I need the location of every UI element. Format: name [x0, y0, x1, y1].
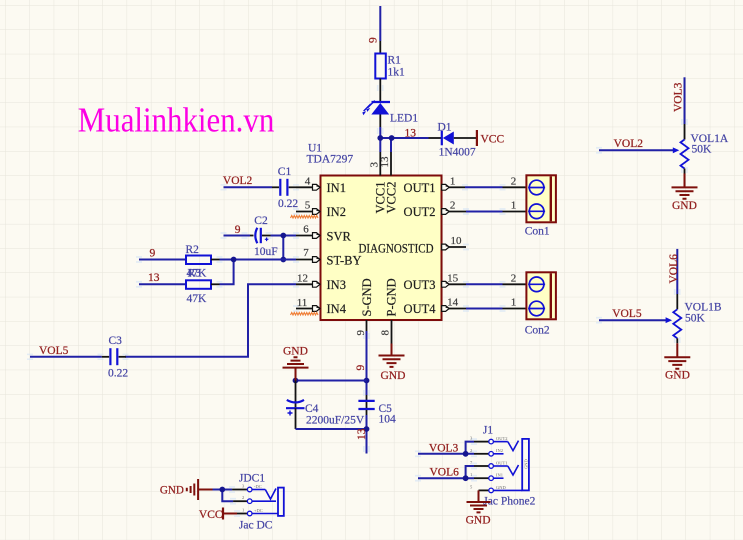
VOL1A labels [691, 133, 729, 156]
svg-text:GND: GND [283, 346, 308, 358]
svg-text:VOL3: VOL3 [429, 443, 459, 455]
svg-text:Con2: Con2 [525, 325, 550, 337]
U1 pin 5 [296, 200, 320, 215]
net label 9 (C2 row) [235, 224, 241, 236]
svg-text:Jac Phone2: Jac Phone2 [483, 496, 535, 508]
svg-text:47K: 47K [187, 293, 208, 305]
svg-text:ST-BY: ST-BY [327, 253, 362, 267]
Con1 label [525, 226, 550, 238]
svg-text:VCC: VCC [481, 134, 505, 146]
U1 designator [307, 143, 354, 166]
svg-text:S-GND: S-GND [360, 278, 374, 316]
svg-text:0.22: 0.22 [278, 198, 298, 210]
U1 pin 10 [442, 235, 466, 250]
U1 pin 4 [296, 176, 320, 191]
svg-text:1: 1 [242, 508, 244, 513]
VOL1B labels [685, 302, 722, 325]
svg-text:1: 1 [470, 472, 472, 477]
svg-text:GND: GND [496, 485, 506, 490]
svg-text:TDA7297: TDA7297 [307, 154, 354, 166]
wire VOL6 right vertical [676, 249, 678, 294]
power port GND (rotated, JDC1) [160, 479, 213, 500]
wire LED to VCC1/VCC2 [380, 127, 428, 152]
svg-text:OUT4: OUT4 [404, 302, 437, 316]
power port GND (inverted, above C4) [283, 346, 309, 381]
U1 pin 6 [296, 224, 320, 239]
power port VCC (JDC1) [199, 508, 237, 522]
JDC1 labels [239, 473, 273, 532]
U1 pin 12 [296, 273, 320, 287]
svg-text:OUT1: OUT1 [496, 460, 508, 465]
svg-text:R3: R3 [188, 268, 202, 280]
svg-text:IN3: IN3 [327, 278, 346, 292]
wire pin12 to C3 net [125, 284, 296, 357]
svg-text:D1: D1 [438, 122, 452, 134]
svg-text:7: 7 [303, 247, 309, 259]
junction dot VOL3 [463, 451, 469, 457]
svg-text:8: 8 [380, 330, 392, 336]
junction dot C4 top [293, 378, 299, 384]
svg-text:+DC: +DC [254, 508, 263, 513]
svg-text:OUT3: OUT3 [404, 278, 436, 292]
net label VOL6 (J1) [430, 467, 460, 479]
net label VOL2 (right) [614, 138, 644, 150]
net label 13 (R3 row) [148, 272, 160, 284]
wire 13 to R3 [139, 283, 186, 285]
svg-text:R1: R1 [388, 55, 402, 67]
svg-text:VOL2: VOL2 [223, 175, 253, 187]
U1 pin 3 [368, 152, 380, 176]
C5 labels [379, 403, 397, 426]
U1 pin 11 [296, 297, 320, 311]
svg-text:VOL3: VOL3 [672, 82, 684, 112]
svg-text:VOL5: VOL5 [612, 308, 642, 320]
svg-text:GND: GND [160, 485, 184, 497]
svg-text:IN1: IN1 [327, 181, 346, 195]
svg-text:2: 2 [511, 176, 517, 188]
svg-text:5: 5 [305, 200, 311, 212]
power port GND (J1) [466, 490, 491, 526]
svg-text:6: 6 [303, 224, 309, 236]
svg-text:2200uF/25V: 2200uF/25V [306, 415, 365, 427]
svg-text:1N4007: 1N4007 [439, 147, 476, 159]
svg-text:C2: C2 [254, 215, 268, 227]
resistor R3 [186, 280, 220, 289]
R3 value [187, 293, 208, 305]
LED LED1 [362, 101, 390, 127]
svg-text:9: 9 [367, 37, 379, 43]
svg-text:12: 12 [297, 273, 308, 285]
net label VOL3 (right) [672, 82, 684, 112]
wire VOL5 to VOL1B wiper [599, 317, 672, 323]
svg-text:1: 1 [450, 176, 456, 188]
net label VOL2 (left) [223, 175, 253, 187]
resistor R1 [375, 41, 386, 102]
svg-text:GND: GND [466, 515, 491, 527]
svg-text:OUT1: OUT1 [404, 181, 436, 195]
net label 9 (S-GND) [355, 365, 367, 371]
junction dots 13-net [377, 135, 394, 141]
Con2 label [525, 325, 550, 337]
wire C2 to pin6 [271, 235, 297, 237]
svg-text:VOL2: VOL2 [614, 138, 644, 150]
svg-text:2: 2 [470, 448, 472, 453]
svg-text:50K: 50K [692, 144, 713, 156]
svg-text:VCC2: VCC2 [384, 182, 398, 214]
C1 labels [278, 166, 299, 210]
U1 pin 8 [380, 320, 392, 344]
svg-text:1k1: 1k1 [388, 67, 406, 79]
svg-text:Mualinhkien.vn: Mualinhkien.vn [78, 100, 274, 139]
wire R2 to pin7 [220, 259, 297, 261]
net label 13 (top) [405, 128, 417, 140]
svg-text:-DC: -DC [254, 484, 262, 489]
junction dot ST-BY [280, 257, 286, 263]
svg-text:R2: R2 [186, 244, 200, 256]
svg-text:4: 4 [305, 176, 311, 188]
wire pin15 to Con2 [466, 272, 526, 284]
svg-text:50K: 50K [685, 313, 706, 325]
net label VOL6 (right) [668, 254, 680, 284]
svg-text:VOL6: VOL6 [668, 254, 680, 284]
wire SVR to ST-BY vertical [282, 236, 284, 260]
net label VOL3 (J1) [429, 443, 459, 455]
svg-text:9: 9 [355, 365, 367, 371]
wire pin1 to Con1 [465, 176, 526, 188]
wire S-GND down [366, 331, 368, 395]
svg-text:C3: C3 [109, 335, 123, 347]
junction dot R2/R3 [231, 257, 237, 263]
svg-text:LED1: LED1 [390, 113, 418, 125]
svg-text:P-GND: P-GND [384, 278, 398, 316]
svg-text:DIAGNOSTICD: DIAGNOSTICD [359, 241, 434, 255]
svg-text:IN4: IN4 [327, 302, 347, 316]
svg-text:C1: C1 [278, 166, 292, 178]
LED1 label [390, 113, 418, 125]
svg-text:GND: GND [672, 200, 697, 212]
svg-text:13: 13 [148, 272, 160, 284]
R2 labels [186, 244, 208, 280]
U1 pin 1 [442, 176, 465, 191]
resistor R2 [186, 256, 220, 265]
net label 9 (top) [367, 37, 379, 43]
net label VOL5 (left) [39, 345, 69, 357]
svg-text:2: 2 [450, 200, 456, 212]
U1 pin 9 [355, 320, 367, 336]
svg-text:104: 104 [379, 414, 397, 426]
svg-text:9: 9 [150, 248, 156, 260]
wire R3 up to ST-BY [220, 260, 234, 285]
junction dot JDC1 [219, 487, 225, 493]
junction dot VOL6 [463, 475, 469, 481]
svg-text:9: 9 [355, 330, 367, 336]
vertical-wire hotspots: pairs left/right [363, 85, 688, 452]
svg-text:IN2: IN2 [496, 448, 503, 453]
no-ERC marker pin11 [291, 313, 319, 316]
svg-text:C4: C4 [305, 403, 319, 415]
junction dot S-GND [364, 378, 370, 384]
capacitor C3 [102, 348, 126, 365]
U1 pin 14 [442, 297, 466, 312]
wire VOL3 to J1 [418, 442, 474, 454]
svg-text:GND: GND [381, 370, 406, 382]
C2 labels [254, 215, 278, 258]
wire C4 bottom to 13 [296, 415, 367, 454]
wire GND to JDC1 [213, 490, 234, 502]
power port GND (VOL1B) [664, 343, 690, 381]
wire VOL2 to C1 [224, 186, 273, 188]
wire cross to C4 [296, 380, 367, 382]
svg-text:13: 13 [379, 156, 391, 168]
wire pin14 to Con2 [466, 297, 526, 309]
op-amp U1 TDA7297 body [321, 176, 442, 321]
potentiometer VOL1A [681, 124, 689, 174]
svg-text:OUT2: OUT2 [496, 436, 508, 441]
capacitor C1 [272, 179, 296, 196]
connector Con1 [526, 175, 556, 222]
wire 9 to R2 [139, 259, 186, 261]
wire pin2 to Con1 [466, 200, 526, 212]
capacitor C4 electrolytic [286, 381, 305, 430]
wire VOL3 right vertical [684, 77, 686, 124]
wire VCC rail top [379, 6, 381, 41]
net label 9 (R2 row) [150, 248, 156, 260]
U1 pin 15 [442, 272, 466, 287]
svg-text:OUT2: OUT2 [404, 205, 436, 219]
svg-text:9: 9 [235, 224, 241, 236]
net label VOL5 (right) [612, 308, 642, 320]
svg-text:J1: J1 [483, 425, 493, 437]
svg-text:Con1: Con1 [525, 226, 550, 238]
svg-text:13: 13 [356, 428, 368, 440]
R1 labels [388, 55, 406, 79]
svg-text:GND: GND [524, 459, 529, 469]
connector JDC1 Jac DC [232, 484, 284, 516]
C4 labels [305, 403, 365, 427]
diode D1 1N4007 [429, 131, 477, 146]
svg-text:10uF: 10uF [254, 246, 278, 258]
connector J1 Jac Phone2 [470, 436, 529, 493]
connector Con2 [526, 272, 556, 319]
power port GND (P-GND) [379, 344, 406, 383]
svg-text:10: 10 [451, 235, 463, 247]
svg-text:15: 15 [447, 272, 459, 284]
svg-text:SVR: SVR [327, 229, 352, 243]
U1 pin 7 [296, 247, 320, 262]
U1 pin names [327, 181, 437, 316]
junction dot 13 [364, 426, 370, 432]
svg-text:Jac DC: Jac DC [239, 520, 273, 532]
svg-text:11: 11 [297, 297, 308, 309]
watermark Mualinhkien.vn [78, 100, 274, 139]
svg-text:1: 1 [511, 297, 517, 309]
J1 labels [483, 425, 536, 508]
svg-text:GND: GND [665, 370, 690, 382]
C3 labels [108, 335, 128, 380]
svg-text:IN2: IN2 [327, 205, 346, 219]
svg-text:JDC1: JDC1 [239, 473, 265, 485]
capacitor C5 [358, 395, 374, 415]
U1 pin 2 [442, 200, 466, 215]
capacitor C2 polarized [250, 228, 271, 243]
svg-text:13: 13 [405, 128, 417, 140]
wire VOL2 to VOL1A wiper [599, 147, 679, 153]
power port VCC (top) [477, 130, 505, 146]
D1 labels [438, 122, 476, 159]
svg-text:VOL6: VOL6 [430, 467, 460, 479]
svg-text:2: 2 [242, 495, 244, 500]
net label 13 (bottom) [356, 428, 368, 440]
wire VOL6 to J1 [418, 466, 474, 478]
hotspot grid marks [27, 85, 688, 517]
svg-text:VOL5: VOL5 [39, 345, 69, 357]
power port GND (VOL1A) [672, 174, 698, 213]
junction dot SVR [280, 233, 286, 239]
svg-text:IN1: IN1 [496, 473, 503, 478]
no-ERC marker pin5 [291, 216, 319, 219]
potentiometer VOL1B [673, 294, 681, 343]
svg-text:VCC: VCC [199, 509, 223, 521]
svg-text:1: 1 [511, 200, 517, 212]
U1 pin 13 [379, 152, 391, 176]
svg-text:2: 2 [511, 272, 517, 284]
horizontal-wire hotspots: pairs above/below [27, 147, 602, 517]
wire 9 to C2 [224, 235, 251, 237]
svg-text:0.22: 0.22 [108, 368, 128, 380]
svg-text:14: 14 [447, 297, 459, 309]
wire C3 to VOL5 end [30, 356, 102, 358]
